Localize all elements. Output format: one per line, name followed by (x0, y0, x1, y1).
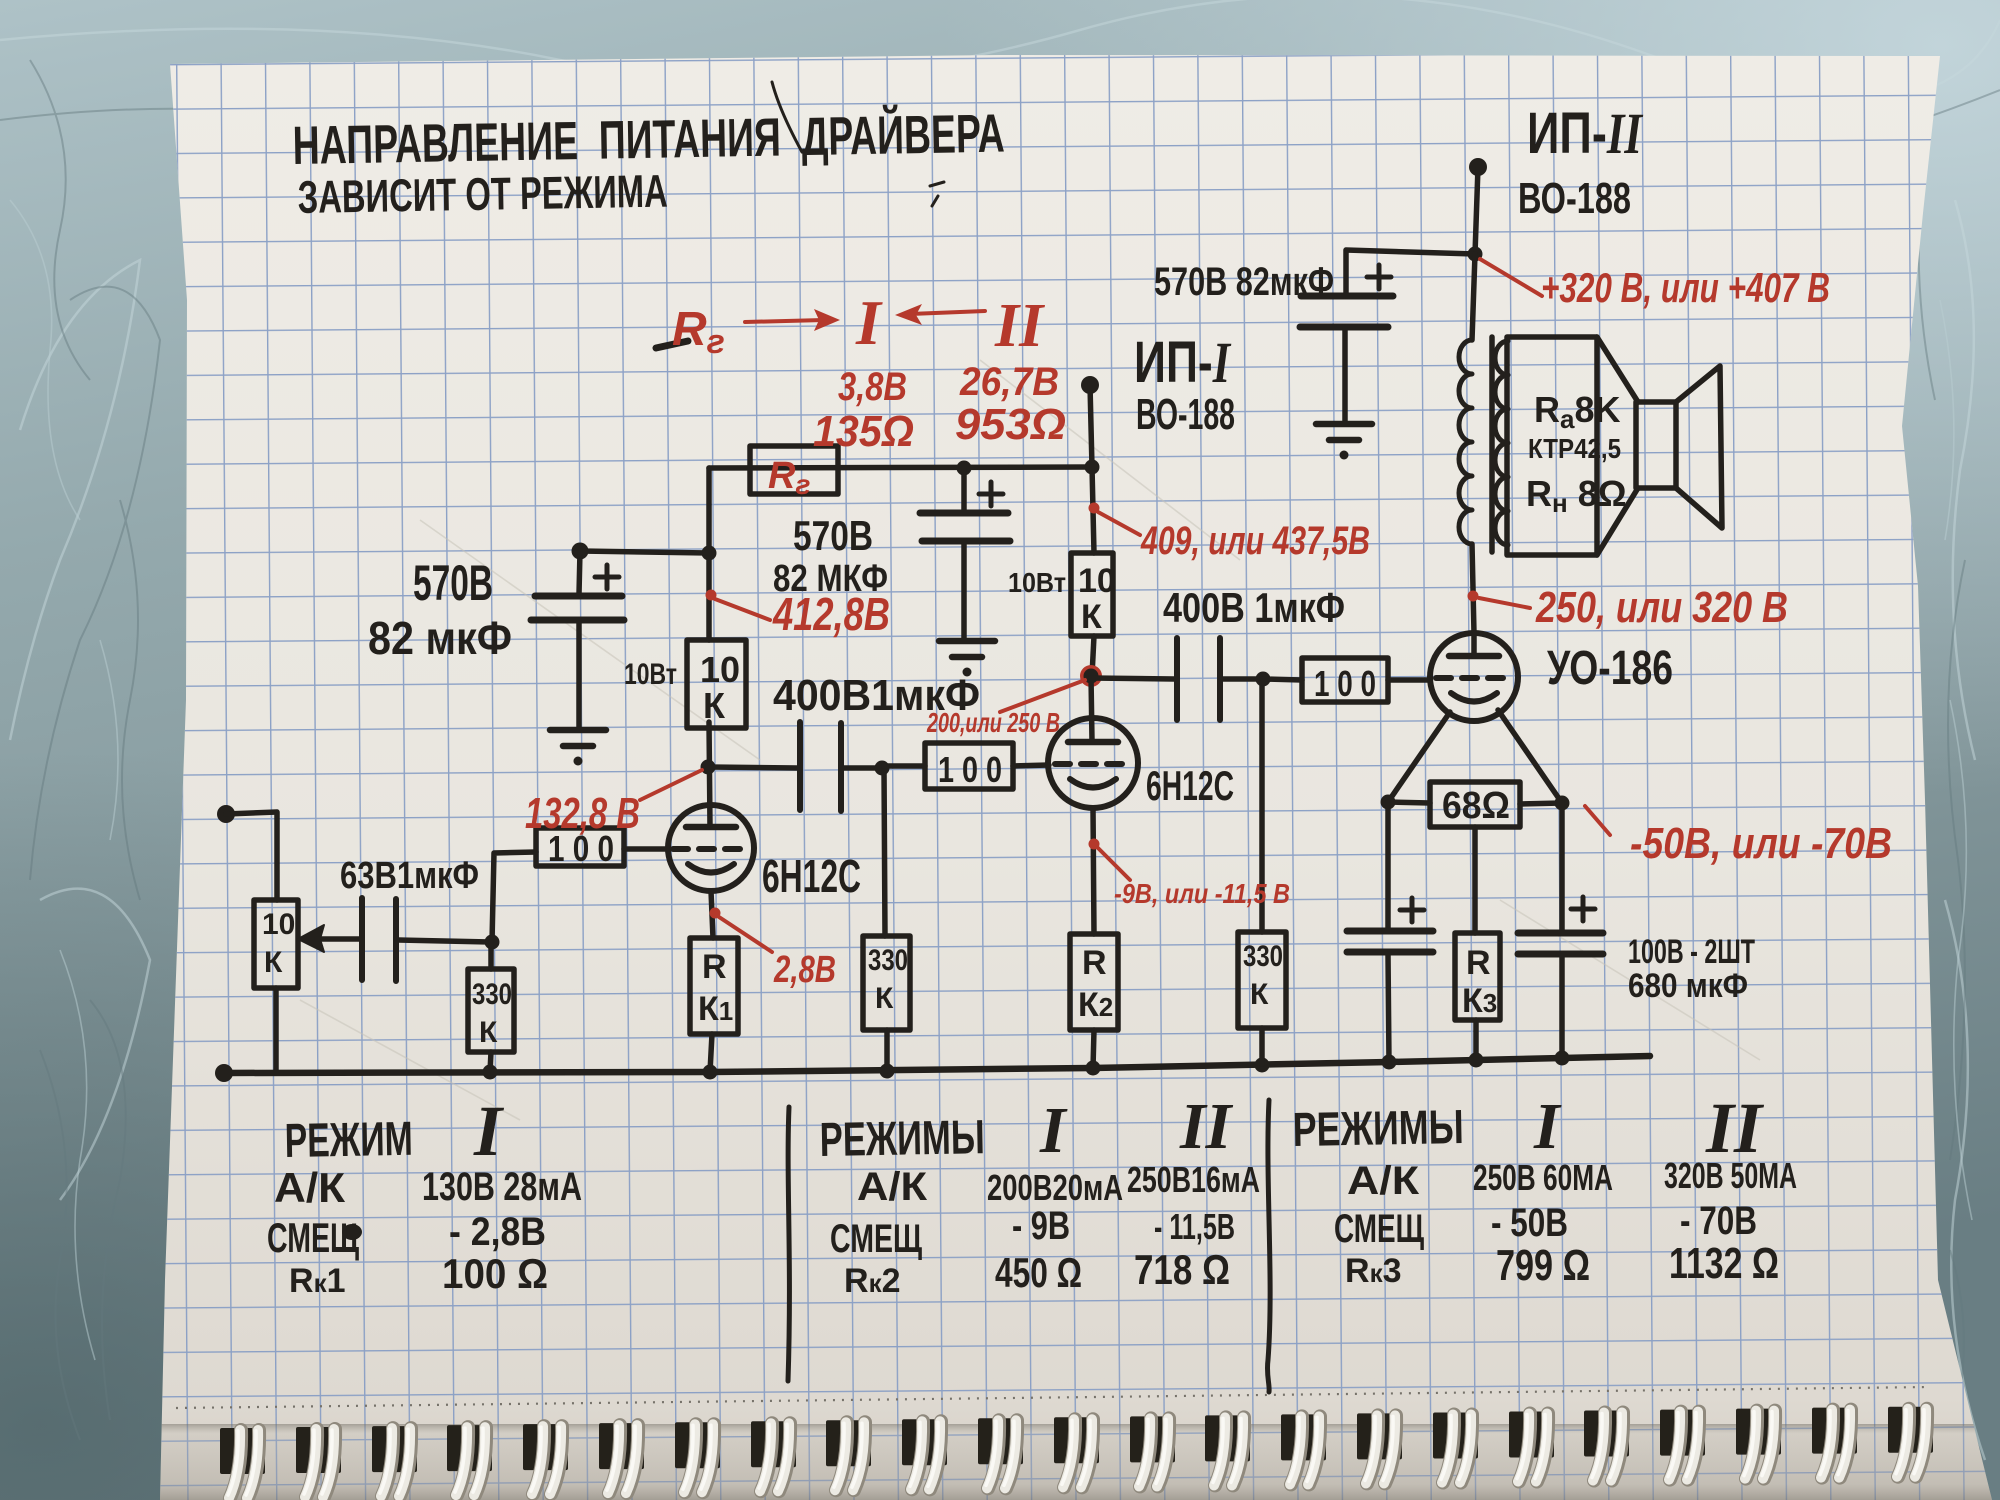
resistor Rg box (750, 446, 838, 494)
svg-text:409, или 437,5В: 409, или 437,5В (1140, 519, 1370, 563)
node J junction (1468, 247, 1483, 262)
svg-text:РЕЖИМЫ: РЕЖИМЫ (819, 1111, 985, 1167)
wire wiper to coupling cap C-in (317, 936, 360, 942)
svg-text:6Н12С: 6Н12С (762, 850, 861, 902)
node H junction (1256, 672, 1271, 687)
resistor Rk3 box (1455, 933, 1500, 1020)
spiral slot+wire 3 (372, 1426, 417, 1496)
wire 100 to tube V1 grid (624, 846, 667, 852)
svg-text:R: R (1082, 944, 1107, 982)
capacitor C5 polarity + (1367, 265, 1391, 289)
svg-text:R: R (702, 948, 727, 986)
svg-text:II: II (1179, 1090, 1234, 1163)
capacitor C1 570V 82uF plates (531, 596, 624, 620)
spiral slot+wire 7 (675, 1422, 720, 1492)
spiral slot+wire 15 (1281, 1414, 1326, 1484)
resistor 330K #1 box (468, 969, 514, 1052)
resistor 100 #3 box (1302, 658, 1388, 702)
node K left dot (1381, 795, 1396, 810)
svg-text:Ra8K: Ra8K (1534, 389, 1621, 434)
svg-text:К2: К2 (1078, 986, 1113, 1024)
wire C-in to grid node A (398, 940, 490, 942)
ground symbol G1 (550, 727, 606, 734)
red dot 412.8V (706, 590, 717, 601)
wire node J to output transformer primary (1472, 254, 1475, 340)
svg-text:200,или 250 В: 200,или 250 В (926, 707, 1060, 738)
svg-text:СМЕЩ: СМЕЩ (1334, 1207, 1424, 1251)
svg-text:400В 1мкФ: 400В 1мкФ (1163, 584, 1345, 631)
wire 100 #2 to V2 grid (1013, 765, 1049, 766)
tube V1 6N12S envelope (668, 805, 754, 891)
svg-text:+320 В, или +407 В: +320 В, или +407 В (1541, 264, 1830, 311)
resistor 100 #2 box (925, 743, 1013, 789)
svg-text:К: К (1250, 978, 1269, 1011)
perforation dotted line (176, 1387, 1930, 1408)
svg-text:26,7В: 26,7В (959, 360, 1059, 404)
ink blob on СМЕЩ table1 (342, 1224, 362, 1240)
paper creases (300, 360, 1760, 1120)
svg-text:1 0 0: 1 0 0 (938, 749, 1002, 790)
svg-text:10Вт: 10Вт (1008, 567, 1066, 598)
wire node F to 10K #2 (1092, 467, 1094, 553)
svg-text:ЗАВИСИТ ОТ РЕЖИМА: ЗАВИСИТ ОТ РЕЖИМА (297, 165, 668, 223)
red pointer -50V tick (1585, 806, 1610, 835)
svg-text:6Н12С: 6Н12С (1146, 762, 1234, 809)
red pointer 250V (1479, 598, 1530, 608)
svg-text:63В1мкФ: 63В1мкФ (340, 855, 479, 897)
svg-text:132,8 В: 132,8 В (525, 789, 640, 838)
svg-text:Rн 8Ω: Rн 8Ω (1526, 473, 1627, 518)
svg-text:ИП-I: ИП-I (1134, 330, 1232, 395)
wire node D to grid stopper 100 #2 (884, 763, 925, 769)
resistor 100 (grid stopper V1) box (536, 828, 624, 866)
V3 filament leg right (1498, 710, 1562, 803)
tube V2 6N12S grid (dashed) (1055, 761, 1131, 767)
spiral slot+wire 12 (1054, 1417, 1099, 1487)
svg-text:680 мкФ: 680 мкФ (1628, 967, 1748, 1005)
svg-text:СМЕЩ: СМЕЩ (267, 1214, 359, 1261)
wire V1 anode up to node B (709, 722, 710, 827)
resistor 330K #3 box (1238, 932, 1286, 1028)
ground symbol G3 (1316, 421, 1372, 428)
svg-text:3,8В: 3,8В (838, 365, 907, 409)
spiral slot+wire 11 (978, 1418, 1023, 1488)
bus terminal dot left (215, 1064, 233, 1082)
wire V2 cathode to Rk2 (1093, 808, 1094, 934)
svg-text:799 Ω: 799 Ω (1496, 1241, 1590, 1290)
ground symbol G2 (939, 638, 995, 645)
svg-text:I: I (855, 287, 883, 358)
node A junction (485, 935, 500, 950)
transformer T1 core (1489, 337, 1495, 552)
node B junction (cap tap) (702, 546, 717, 561)
resistor 68 Ohm box (1430, 782, 1520, 827)
tube V3 UO-186 cathode (1451, 693, 1497, 702)
node D junction (875, 761, 890, 776)
wire input terminal to pot (226, 812, 277, 900)
wire C4 to node H (1222, 676, 1262, 682)
wire Rk2 to bus (1093, 1030, 1094, 1068)
spiral slot+wire 21 (1736, 1409, 1781, 1479)
wire 330K #1 to bus (490, 1052, 491, 1072)
wire IP-I down to node F (1090, 385, 1092, 467)
ink smudge near red I (656, 341, 688, 348)
red arrow left (II direction) (910, 311, 985, 314)
tube V1 6N12S anode (686, 824, 736, 831)
wire 10K #2 to V2 anode node (1092, 636, 1094, 676)
capacitor C-in 63V 1uF plates (362, 898, 396, 981)
svg-text:250В16мА: 250В16мА (1127, 1159, 1260, 1200)
spiral slot+wire 16 (1357, 1413, 1402, 1483)
svg-text:330: 330 (868, 944, 908, 977)
svg-text:К: К (1081, 598, 1102, 636)
capacitor C6 polarity + (1400, 898, 1424, 922)
node L right dot (1555, 796, 1570, 811)
resistor 10K 10W #2 box (1071, 553, 1113, 636)
spiral slot+wire 9 (826, 1420, 871, 1490)
svg-text:1132 Ω: 1132 Ω (1669, 1239, 1779, 1288)
svg-text:-50В, или -70В: -50В, или -70В (1630, 819, 1892, 868)
svg-text:К: К (875, 982, 894, 1015)
wire C7 to bus (1559, 956, 1565, 1058)
node V1 anode coupling junction (701, 760, 716, 775)
red pointer 2.8V (719, 917, 772, 952)
node G junction (V2 anode) red ring (1080, 665, 1102, 687)
spiral slot+wire 10 (902, 1419, 947, 1489)
wire node H to grid stopper 100 #3 (1263, 679, 1302, 680)
svg-text:320В 50МА: 320В 50МА (1664, 1155, 1797, 1196)
svg-text:I: I (1533, 1090, 1562, 1163)
resistor 330K #2 box (863, 936, 910, 1030)
node C1 top dot (572, 543, 589, 560)
wire node G to coupling cap C4 (1091, 678, 1174, 679)
tube V2 6N12S anode (1068, 739, 1118, 746)
svg-text:330: 330 (1243, 940, 1283, 973)
svg-text:82 мкФ: 82 мкФ (368, 612, 512, 664)
svg-text:- 9В: - 9В (1012, 1204, 1070, 1248)
svg-text:250В 60МА: 250В 60МА (1473, 1157, 1613, 1198)
svg-text:100 Ω: 100 Ω (442, 1250, 548, 1297)
svg-text:I: I (473, 1091, 505, 1171)
svg-text:- 11,5В: - 11,5В (1154, 1206, 1235, 1247)
wire node L down to cap C7 (1559, 803, 1565, 931)
spiral slot+wire 2 (296, 1427, 341, 1497)
svg-text:570В: 570В (793, 512, 873, 559)
wire node H down to 330K #3 (1259, 679, 1265, 932)
wire node B to filter cap C1 (580, 551, 709, 553)
wire C2 to node D (843, 765, 882, 771)
svg-text:СМЕЩ: СМЕЩ (830, 1217, 922, 1261)
spiral slot+wire 14 (1205, 1415, 1250, 1485)
wire C3 to ground symbol (961, 542, 967, 639)
capacitor C7 680uF plates (1518, 933, 1603, 954)
svg-text:К: К (264, 946, 283, 979)
wire node D down to 330K #2 (884, 768, 885, 936)
wire 68R to node L (1520, 803, 1562, 804)
svg-text:10: 10 (1078, 562, 1116, 600)
spiral slot+wire 6 (599, 1423, 644, 1493)
speaker LS1 driver box (1636, 402, 1676, 488)
wire into C1 (579, 551, 580, 594)
svg-text:ВО-188: ВО-188 (1518, 174, 1631, 223)
wire Rk3 to bus (1473, 1020, 1479, 1060)
svg-text:10: 10 (700, 649, 740, 690)
tube V1 6N12S grid (dashed) (673, 846, 749, 852)
svg-text:R: R (1466, 944, 1491, 982)
svg-text:Rк1: Rк1 (289, 1262, 346, 1300)
spiral slot+wire 19 (1584, 1411, 1629, 1481)
red pointer -9V (1098, 848, 1130, 880)
wire 100 #3 to V3 grid (1388, 677, 1430, 683)
tube V3 UO-186 anode (1449, 653, 1499, 660)
svg-text:- 70В: - 70В (1680, 1199, 1757, 1243)
wire secondary to speaker (top) (1597, 337, 1638, 402)
wire IP-II down to node J (1475, 167, 1478, 254)
svg-text:А/К: А/К (1347, 1159, 1420, 1203)
transformer T1 primary winding (1459, 340, 1472, 544)
wire anode node to coupling cap C2 (708, 767, 797, 768)
spiral slot+wire 23 (1888, 1407, 1933, 1477)
svg-text:Rк2: Rк2 (844, 1262, 901, 1300)
svg-text:570В 82мкФ: 570В 82мкФ (1154, 260, 1334, 304)
svg-text:130В 28мА: 130В 28мА (422, 1165, 582, 1209)
wire node K down to cap C6 (1385, 802, 1391, 929)
spiral slot+wire 22 (1812, 1408, 1857, 1478)
svg-text:1 0 0: 1 0 0 (1314, 663, 1376, 704)
wire Rk1 to bus (710, 1034, 712, 1072)
wire node A up to grid stopper 100 (492, 852, 536, 942)
red dot 2.8V (710, 908, 721, 919)
ground bus wire (224, 1056, 1650, 1073)
potentiometer 10K box (254, 900, 298, 988)
transformer T1 label box (1507, 337, 1597, 555)
capacitor C5 570V 82uF plates (1300, 296, 1393, 327)
svg-text:- 50В: - 50В (1491, 1201, 1568, 1245)
red dot -9V (1089, 839, 1100, 850)
resistor 10K 10W #1 box (687, 640, 746, 728)
spiral slot+wire 13 (1130, 1416, 1175, 1486)
svg-text:УО-186: УО-186 (1547, 642, 1673, 695)
tube V3 UO-186 envelope (1430, 633, 1518, 721)
svg-text:К: К (703, 685, 726, 726)
red pointer +320V (1480, 259, 1542, 296)
svg-text:250, или 320 В: 250, или 320 В (1535, 583, 1788, 632)
svg-text:Rк3: Rк3 (1345, 1252, 1402, 1290)
wire transformer primary to V3 anode (1472, 544, 1474, 633)
svg-text:А/К: А/К (857, 1165, 928, 1209)
potentiometer wiper arrow (305, 937, 317, 942)
red pointer 409V (1098, 512, 1140, 535)
spiral slot+wire 17 (1433, 1413, 1478, 1483)
red dot 250V (1468, 591, 1479, 602)
spiral slot+wire 1 (220, 1428, 265, 1498)
wire 330K #2 to bus (884, 1030, 890, 1071)
wire node J to cap C5 corner (1346, 250, 1475, 295)
V3 filament leg left (1388, 712, 1450, 802)
svg-text:100В - 2ШТ: 100В - 2ШТ (1628, 933, 1755, 971)
svg-text:570В: 570В (413, 555, 493, 611)
svg-text:412,8В: 412,8В (772, 588, 890, 640)
bus junction dots (483, 1065, 498, 1080)
svg-text:К: К (479, 1016, 498, 1049)
svg-text:II: II (994, 292, 1045, 360)
table divider line 2 (1267, 1100, 1270, 1392)
wire C1 to ground symbol (576, 622, 582, 728)
wire node K to 68R (1388, 802, 1430, 803)
red arrow right (Rg direction I) (745, 320, 824, 322)
svg-text:718 Ω: 718 Ω (1134, 1246, 1230, 1293)
svg-text:68Ω: 68Ω (1442, 785, 1510, 827)
svg-text:К1: К1 (698, 990, 733, 1028)
svg-text:450 Ω: 450 Ω (995, 1249, 1082, 1296)
wire node A down to 330K (488, 942, 494, 969)
capacitor C3 570V 82uF plates (920, 513, 1010, 541)
node F junction (1085, 460, 1100, 475)
spiral slot+wire 8 (751, 1421, 796, 1491)
tube V1 6N12S cathode (688, 864, 734, 873)
spiral slot+wire 5 (523, 1424, 568, 1494)
capacitor C4 400V 1uF plates (1177, 638, 1220, 720)
wire secondary to speaker (bottom) (1597, 488, 1638, 555)
capacitor C6 680uF plates (1347, 931, 1433, 952)
wire node G into V2 anode (1091, 676, 1092, 741)
tube V3 UO-186 grid (dashed) (1436, 675, 1512, 681)
table divider line 1 (788, 1107, 789, 1381)
svg-text:-9В, или -11,5 В: -9В, или -11,5 В (1114, 878, 1290, 909)
svg-text:К3: К3 (1462, 982, 1497, 1020)
svg-text:ИП-II: ИП-II (1527, 101, 1644, 166)
wire pot bottom to ground bus (273, 988, 279, 1072)
svg-text:РЕЖИМЫ: РЕЖИМЫ (1292, 1101, 1464, 1157)
wire into V3 anode from top (1471, 633, 1477, 656)
svg-text:I: I (1039, 1094, 1068, 1167)
wire 10K#1 top to Rg line (706, 468, 712, 640)
svg-text:953Ω: 953Ω (955, 400, 1066, 449)
node E junction (cap2 tap) (957, 461, 972, 476)
capacitor C7 polarity + (1571, 897, 1595, 921)
svg-text:РЕЖИМ: РЕЖИМ (284, 1113, 413, 1168)
wire Rg supply line (709, 467, 1092, 468)
svg-text:КТР42,5: КТР42,5 (1528, 433, 1621, 464)
wire C5 to ground symbol (1342, 328, 1348, 422)
transformer T1 secondary winding (1495, 341, 1508, 545)
tube V2 6N12S cathode (1070, 779, 1116, 788)
node input terminal (217, 805, 235, 823)
spiral slot+wire 18 (1509, 1412, 1554, 1482)
svg-text:200В20мА: 200В20мА (987, 1167, 1123, 1208)
wire V1 cathode to Rk1 (711, 891, 713, 938)
svg-text:ВО-188: ВО-188 (1136, 390, 1235, 439)
ink speck near title (930, 182, 944, 206)
svg-text:135Ω: 135Ω (813, 407, 914, 456)
spiral slot+wire 4 (447, 1425, 492, 1495)
spiral slot+wire 20 (1660, 1410, 1705, 1480)
capacitor C1 polarity + (595, 565, 619, 589)
svg-text:А/К: А/К (274, 1164, 345, 1211)
svg-text:10Вт: 10Вт (624, 658, 677, 691)
red pointer 412.8V (715, 599, 770, 620)
capacitor C2 400V 1uF plates (800, 722, 841, 811)
wire 330K #3 to bus (1259, 1028, 1265, 1064)
capacitor C3 polarity + (979, 482, 1003, 506)
svg-text:10: 10 (262, 908, 295, 941)
power terminal IP-II (1469, 158, 1487, 176)
red pointer 200V (1000, 680, 1085, 712)
wire 68R center down to Rk3 (1472, 827, 1478, 933)
red pointer 132.8V (640, 770, 702, 800)
wire C6 to bus (1388, 954, 1389, 1062)
resistor Rk2 box (1070, 934, 1118, 1030)
ink smudge above title (772, 82, 802, 152)
wire node E down to filter cap C3 (961, 468, 967, 512)
svg-text:- 2,8В: - 2,8В (449, 1210, 546, 1254)
tube V2 6N12S envelope (1048, 718, 1138, 808)
red dot 409V (1089, 503, 1100, 514)
svg-text:2,8В: 2,8В (773, 949, 836, 991)
svg-text:330: 330 (472, 978, 512, 1011)
resistor Rk1 box (690, 938, 738, 1034)
speaker LS1 horn (1676, 366, 1722, 528)
power terminal IP-I (1081, 376, 1099, 394)
